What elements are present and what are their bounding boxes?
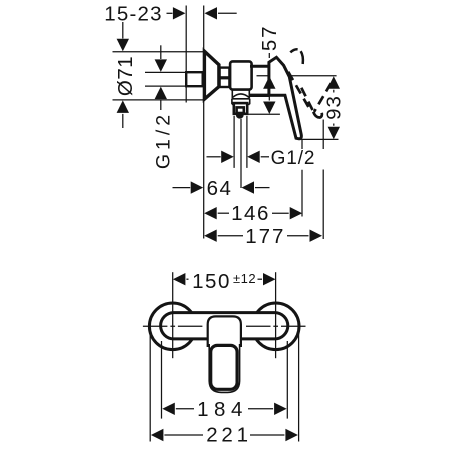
dimension 221 <box>151 424 298 447</box>
dimension 177 <box>204 225 322 248</box>
dimension G1/2 left <box>153 45 175 169</box>
wire outlet-axis-line <box>248 113 280 115</box>
outlet upper band <box>232 90 249 99</box>
outlet nut square <box>234 103 247 114</box>
wire outlet-centerline <box>240 119 242 188</box>
dimension 146 <box>204 202 302 225</box>
handle lever <box>269 57 301 139</box>
dimension O71 <box>114 22 137 128</box>
handle ghost lever dashed edge 2 <box>300 85 313 110</box>
svg-text:177: 177 <box>245 225 285 248</box>
wire wall-line-B <box>203 6 205 239</box>
wire outlet-ext-left <box>233 116 235 168</box>
handle sleeve top <box>250 65 269 68</box>
centerline tick left <box>143 325 203 327</box>
dimension 150 +-12 <box>173 270 276 293</box>
mixer body <box>230 61 252 89</box>
svg-text:G1/2: G1/2 <box>271 148 316 169</box>
wire 221-ext-right <box>298 328 300 442</box>
wire 184-ext-right <box>286 341 288 419</box>
svg-text:221: 221 <box>206 424 252 447</box>
dimension 184 <box>162 398 286 421</box>
svg-text:15-23: 15-23 <box>104 2 162 25</box>
dimension 64 <box>173 177 270 200</box>
svg-text:184: 184 <box>197 398 248 421</box>
wire escutcheon-extent-top <box>113 51 204 53</box>
mixer bar <box>161 313 288 339</box>
svg-text:Ø71: Ø71 <box>114 56 137 96</box>
wire handle-top-ref-line <box>257 75 337 77</box>
wall pipe stub <box>186 72 203 86</box>
svg-text:93: 93 <box>323 95 346 120</box>
dimension 57 <box>258 25 281 114</box>
wire wall-line-A <box>185 6 187 103</box>
svg-text:150: 150 <box>192 270 231 293</box>
svg-text:±12: ±12 <box>233 271 256 286</box>
wire supply-pipe-bottom <box>145 85 187 87</box>
wire 184-ext-left <box>161 341 163 419</box>
dimension 15-23 <box>104 2 236 25</box>
front handle grip outer <box>209 344 239 392</box>
svg-text:57: 57 <box>258 25 281 51</box>
wire ghost-lever-ext-line <box>322 120 324 240</box>
handle ghost tip dash <box>313 112 322 118</box>
svg-text:64: 64 <box>207 177 233 200</box>
centerline tick right <box>246 325 306 327</box>
wire center-ext-left <box>172 272 174 358</box>
handle ghost lever dashed edge 1 <box>288 72 308 107</box>
wire 221-ext-left <box>149 328 151 442</box>
escutcheon cone <box>204 51 219 99</box>
escutcheon circle left <box>149 303 196 350</box>
wire escutcheon-extent-bottom <box>113 99 204 101</box>
outlet inner square <box>237 107 244 113</box>
handle ghost right edge dashed <box>314 83 331 112</box>
svg-text:G1/2: G1/2 <box>153 111 175 169</box>
wire lever-ext-line <box>301 140 303 217</box>
dimension G1/2 right <box>207 148 316 169</box>
wire 93-bottom-ref-line <box>297 138 339 140</box>
wire supply-pipe-top <box>145 71 187 73</box>
front handle grip face <box>211 345 237 389</box>
escutcheon circle right <box>252 303 299 350</box>
handle sleeve bottom <box>250 94 270 97</box>
s-union square 1 <box>220 68 230 78</box>
s-union square 2 <box>220 78 230 87</box>
outlet lower band <box>232 99 250 105</box>
dimension 93 <box>323 76 346 139</box>
outlet tip <box>236 115 244 119</box>
handle ghost knob dashes <box>290 49 297 52</box>
svg-text:146: 146 <box>231 202 270 225</box>
wire outlet-ext-right <box>246 116 248 168</box>
outlet dome arc <box>233 94 249 97</box>
wire center-ext-right <box>275 272 277 358</box>
front handle base <box>208 316 241 347</box>
